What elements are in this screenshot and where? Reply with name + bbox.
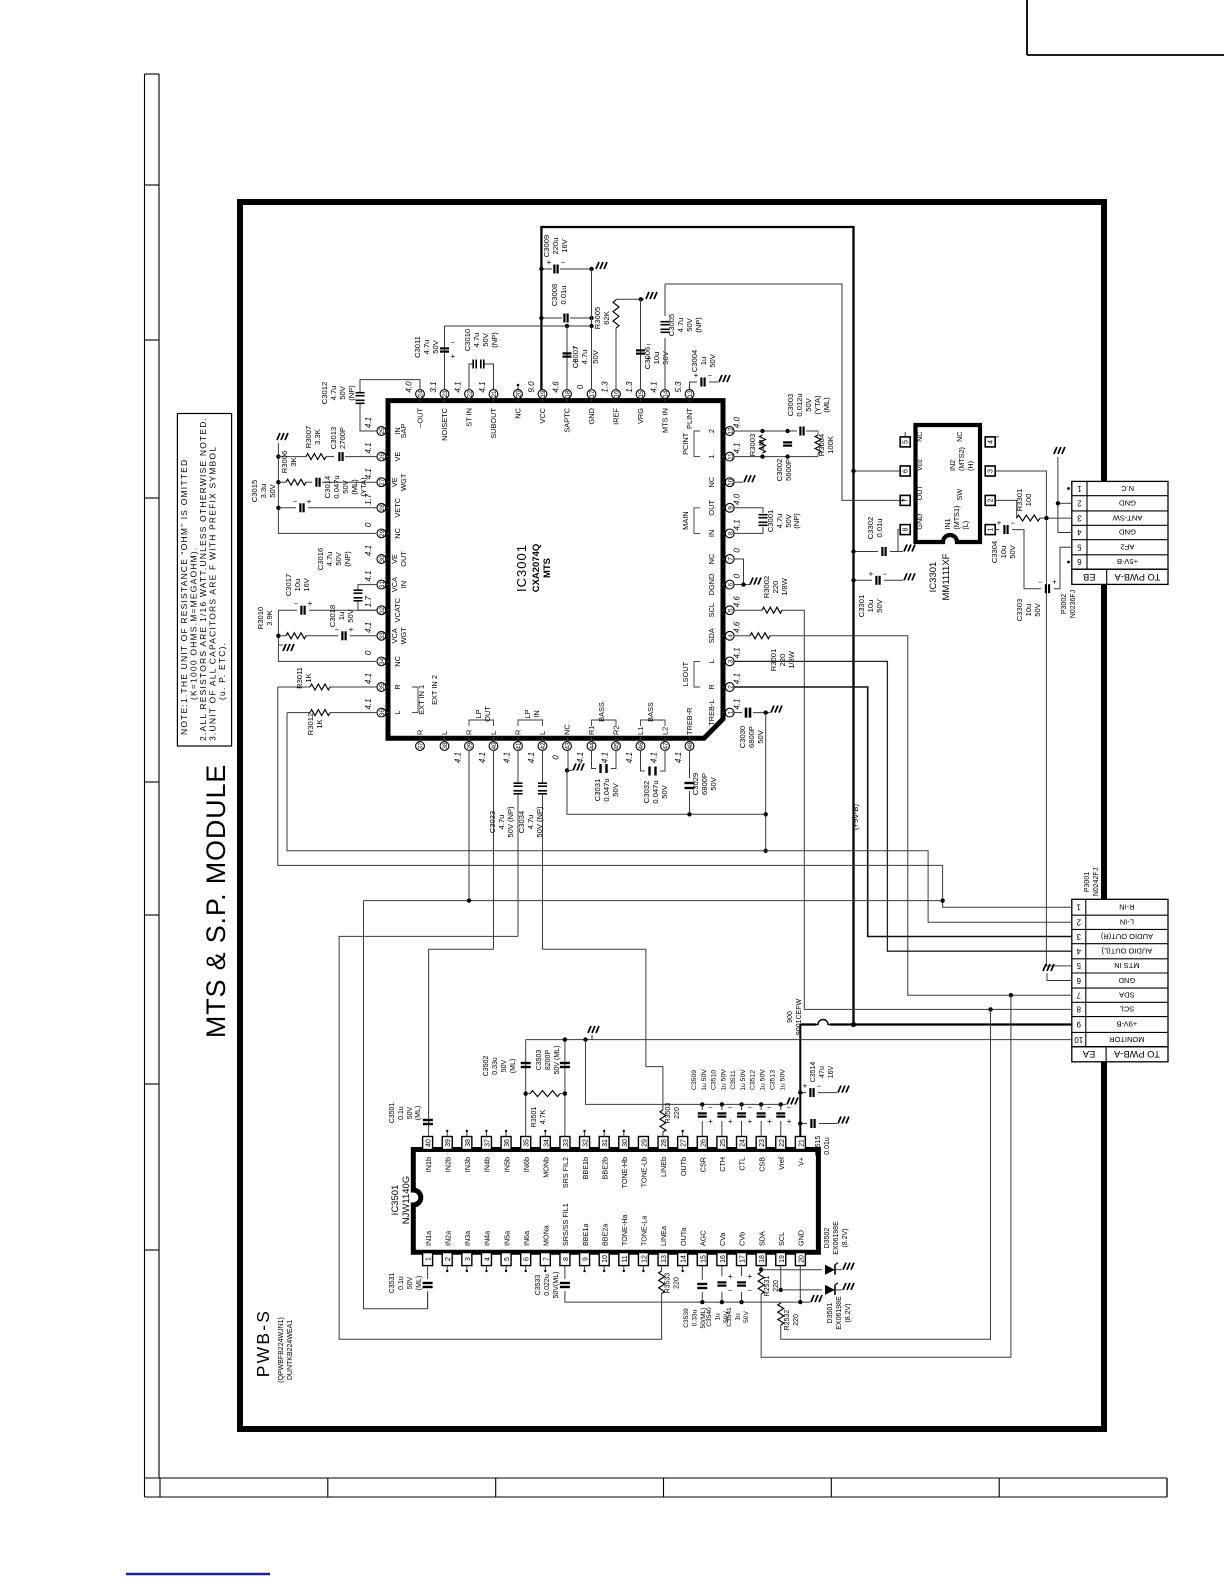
- svg-text:R: R: [393, 684, 402, 689]
- svg-text:4.1: 4.1: [454, 381, 463, 392]
- svg-text:4.7u: 4.7u: [497, 815, 506, 830]
- svg-text:VCA: VCA: [390, 628, 399, 643]
- svg-text:0.01u: 0.01u: [824, 1137, 831, 1155]
- svg-text:+5V-B: +5V-B: [1117, 557, 1138, 566]
- svg-text:C3032: C3032: [642, 781, 651, 803]
- resistor R3011 (pin35): [278, 686, 310, 688]
- svg-text:4.1: 4.1: [527, 752, 536, 763]
- svg-text:IN1: IN1: [943, 518, 952, 529]
- svg-text:+: +: [803, 1082, 808, 1091]
- wire R node horizontal: [364, 900, 943, 902]
- svg-text:4.1: 4.1: [364, 545, 373, 556]
- svg-text:TONE-La: TONE-La: [640, 1216, 649, 1246]
- svg-text:50V: 50V: [407, 1276, 414, 1289]
- svg-text:(MTS1): (MTS1): [952, 506, 961, 530]
- svg-text:NC: NC: [393, 655, 402, 666]
- svg-text:+: +: [307, 497, 312, 506]
- svg-text:8: 8: [903, 528, 910, 532]
- svg-text:10: 10: [1074, 1035, 1083, 1044]
- svg-text:C3030: C3030: [738, 726, 747, 748]
- svg-text:8: 8: [727, 531, 734, 535]
- svg-text:SDA: SDA: [707, 628, 716, 643]
- svg-text:35: 35: [524, 1139, 531, 1147]
- svg-text:39: 39: [445, 1139, 452, 1147]
- svg-text:+: +: [547, 258, 552, 267]
- svg-text:R2531: R2531: [764, 1276, 771, 1297]
- resistor R2531 (SDA): [760, 1266, 762, 1270]
- svg-text:19: 19: [779, 1255, 786, 1263]
- svg-text:1u: 1u: [735, 1313, 742, 1321]
- svg-text:+: +: [787, 1117, 792, 1126]
- svg-text:1u 50V: 1u 50V: [779, 1069, 786, 1091]
- svg-text:−: −: [1011, 519, 1016, 528]
- svg-text:C3304: C3304: [990, 541, 999, 563]
- svg-text:9.0: 9.0: [527, 381, 536, 393]
- svg-text:NC: NC: [563, 724, 572, 735]
- svg-text:2.ALL RESISTORS ARE 1/16 WATT.: 2.ALL RESISTORS ARE 1/16 WATT.UNLESS OTH…: [198, 417, 208, 741]
- svg-text:TONE-Ha: TONE-Ha: [620, 1215, 629, 1246]
- svg-text:220: 220: [793, 1314, 800, 1326]
- transistor-array IC3301 MM1111XF body: [916, 425, 981, 542]
- svg-text:11: 11: [622, 1255, 629, 1262]
- svg-text:C3539: C3539: [683, 1308, 690, 1328]
- IC3301 pin4 stub: [995, 436, 999, 438]
- wire V+ riser IC3501: [799, 1025, 801, 1145]
- svg-text:7: 7: [903, 498, 910, 502]
- capacitors C3509-C3513: [700, 1102, 704, 1106]
- svg-text:26: 26: [700, 1139, 707, 1147]
- svg-text:5.3: 5.3: [674, 381, 683, 393]
- ground R3005: [646, 292, 657, 299]
- svg-text:R3501: R3501: [531, 1107, 538, 1128]
- svg-text:C3515: C3515: [815, 1136, 822, 1157]
- svg-text:18: 18: [565, 390, 572, 398]
- svg-text:N0242FJ: N0242FJ: [1093, 868, 1100, 896]
- svg-text:32: 32: [583, 1139, 590, 1147]
- svg-text:R1: R1: [587, 726, 596, 735]
- svg-text:LINEb: LINEb: [659, 1157, 668, 1177]
- capacitor C3007: [566, 326, 568, 390]
- svg-text:33: 33: [379, 632, 386, 640]
- ground D3502: [843, 1263, 854, 1270]
- svg-text:34: 34: [379, 657, 386, 665]
- svg-text:39: 39: [467, 742, 474, 750]
- svg-text:−: −: [748, 1286, 753, 1295]
- IC3501 reference text: [390, 1185, 401, 1216]
- svg-text:21: 21: [491, 390, 498, 398]
- svg-text:OUTa: OUTa: [679, 1228, 688, 1246]
- capacitor C3303 (AF2): [1024, 588, 1041, 590]
- svg-text:C3511: C3511: [730, 1070, 737, 1090]
- svg-text:0: 0: [733, 573, 742, 578]
- svg-text:GND: GND: [587, 408, 596, 424]
- svg-text:CTL: CTL: [738, 1157, 747, 1171]
- svg-text:LINEa: LINEa: [659, 1226, 668, 1246]
- page frame: bottom ruler strip: [145, 1477, 1168, 1479]
- wire pin42 to LINEb route: [543, 949, 663, 1110]
- svg-text:MONa: MONa: [542, 1225, 551, 1246]
- svg-text:−: −: [728, 1286, 733, 1295]
- svg-text:22: 22: [779, 1139, 786, 1147]
- svg-text:SRS FIL2: SRS FIL2: [561, 1157, 570, 1188]
- capacitor C3541: [739, 1300, 743, 1304]
- svg-text:TONE-Lb: TONE-Lb: [640, 1157, 649, 1187]
- svg-text:NC: NC: [707, 553, 716, 564]
- svg-text:+: +: [451, 352, 456, 361]
- capacitor C3033 (pin41 riser): [517, 750, 519, 783]
- svg-text:16: 16: [614, 390, 621, 398]
- svg-text:C3015: C3015: [250, 480, 259, 502]
- svg-text:50V: 50V: [1008, 544, 1017, 558]
- svg-text:43: 43: [565, 742, 572, 750]
- svg-text:29: 29: [641, 1139, 648, 1147]
- resistor R3003 capacitor C3002 C3003 resistor R3004 (pins 12,11): [734, 430, 797, 432]
- page frame: left ruler strip: [144, 74, 146, 1497]
- svg-text:32: 32: [379, 606, 386, 614]
- IC3501 NC stubs: [446, 1131, 448, 1137]
- svg-text:1.3: 1.3: [625, 381, 634, 393]
- svg-text:4.0: 4.0: [733, 416, 742, 428]
- svg-text:NC: NC: [707, 476, 716, 487]
- svg-text:GND: GND: [915, 514, 924, 530]
- capacitor C3030 (pin1 TREB-L): [734, 712, 742, 714]
- svg-text:(u. P. ETC).: (u. P. ETC).: [217, 642, 227, 700]
- svg-text:+: +: [728, 1117, 733, 1126]
- capacitor C3503: [564, 1040, 566, 1137]
- svg-text:GND: GND: [1118, 976, 1135, 985]
- svg-text:42: 42: [540, 742, 547, 750]
- wire pin10 stub: [734, 481, 743, 483]
- wire MTS IN loop to IC3301 OUT: [665, 284, 905, 500]
- svg-text:47: 47: [663, 742, 670, 750]
- svg-text:2700P: 2700P: [338, 427, 347, 449]
- svg-text:1/8W: 1/8W: [780, 577, 789, 596]
- svg-text:50V: 50V: [875, 598, 884, 612]
- svg-text:+: +: [708, 1117, 713, 1126]
- capacitor C3539: [700, 1300, 704, 1304]
- svg-text:+: +: [308, 599, 313, 608]
- connector P3001 EA table: [1072, 899, 1168, 1046]
- svg-text:220: 220: [674, 1277, 681, 1289]
- svg-text:C3010: C3010: [463, 329, 472, 351]
- svg-text:TO PWB-A: TO PWB-A: [1113, 1049, 1160, 1059]
- svg-text:N0236FJ: N0236FJ: [1070, 590, 1077, 618]
- svg-text:0.047u: 0.047u: [602, 778, 611, 801]
- IC3301 reference text: [928, 562, 939, 593]
- svg-text:4.7u: 4.7u: [580, 350, 589, 365]
- svg-text:16V: 16V: [828, 1065, 835, 1078]
- svg-text:R: R: [416, 730, 425, 735]
- capacitor C3011: [440, 348, 449, 351]
- svg-text:6: 6: [727, 582, 734, 586]
- capacitor C3301: [854, 579, 873, 581]
- svg-text:19: 19: [540, 390, 547, 398]
- svg-text:100K: 100K: [826, 436, 835, 454]
- svg-text:27: 27: [681, 1139, 688, 1147]
- wire AUDIO OUT(L) from pin3: [734, 661, 1072, 951]
- svg-text:48: 48: [687, 742, 694, 750]
- svg-text:PLINT: PLINT: [685, 408, 694, 429]
- ground D3501: [843, 1283, 854, 1290]
- svg-text:50V: 50V: [660, 784, 669, 798]
- svg-text:4.1: 4.1: [364, 622, 373, 633]
- EB pin6 stub: [1067, 561, 1070, 564]
- svg-text:EX06198E: EX06198E: [836, 1296, 843, 1330]
- svg-text:50V: 50V: [334, 551, 343, 565]
- svg-text:R3011: R3011: [295, 667, 304, 689]
- svg-text:(ML): (ML): [510, 1059, 517, 1073]
- svg-text:OUT: OUT: [399, 551, 408, 567]
- capacitor C3034 (pin42 riser): [542, 750, 544, 783]
- svg-text:8: 8: [563, 1257, 570, 1261]
- connector P3002 EB table: [1072, 481, 1168, 569]
- svg-text:4.7u: 4.7u: [472, 333, 481, 348]
- svg-text:4.1: 4.1: [478, 752, 487, 763]
- svg-text:BBE1b: BBE1b: [581, 1157, 590, 1179]
- ground MONITOR bus: [591, 1035, 593, 1040]
- svg-text:7: 7: [727, 557, 734, 561]
- wire left bus B (pins 32-34): [278, 610, 376, 661]
- svg-text:+: +: [997, 519, 1002, 528]
- IC3001 pin 20 stub: [517, 385, 519, 390]
- svg-text:OUT: OUT: [483, 706, 492, 722]
- svg-text:ST IN: ST IN: [465, 408, 474, 427]
- svg-text:OUT: OUT: [915, 485, 924, 501]
- svg-text:15: 15: [700, 1255, 707, 1263]
- svg-text:NOTE:1.THE UNIT OF RESISTANCE: NOTE:1.THE UNIT OF RESISTANCE “OHM” IS O…: [179, 459, 189, 735]
- svg-text:IC3001: IC3001: [514, 544, 529, 592]
- svg-text:8: 8: [1076, 1005, 1081, 1014]
- svg-text:4.0: 4.0: [405, 381, 414, 393]
- svg-text:TREB-R: TREB-R: [685, 707, 694, 735]
- svg-text:C3540: C3540: [706, 1307, 713, 1327]
- svg-text:C3301: C3301: [857, 595, 866, 617]
- svg-text:1M: 1M: [757, 440, 766, 451]
- svg-text:CXA2074Q: CXA2074Q: [531, 544, 542, 593]
- svg-text:MONb: MONb: [542, 1157, 551, 1178]
- EB pin1 stub: [1067, 487, 1070, 490]
- svg-text:EXT IN 1: EXT IN 1: [417, 685, 426, 715]
- svg-text:4.1: 4.1: [478, 381, 487, 392]
- svg-text:0.33u: 0.33u: [492, 1057, 499, 1075]
- svg-text:AUDIO OUT(R): AUDIO OUT(R): [1100, 932, 1153, 941]
- svg-text:C3502: C3502: [483, 1056, 490, 1077]
- svg-text:LP: LP: [474, 709, 483, 718]
- svg-text:37: 37: [418, 742, 425, 750]
- svg-text:36: 36: [379, 709, 386, 717]
- svg-text:C3034: C3034: [517, 811, 526, 833]
- svg-text:OUTb: OUTb: [679, 1157, 688, 1176]
- svg-text:22: 22: [467, 390, 474, 398]
- svg-text:50V: 50V: [501, 1059, 508, 1072]
- svg-text:23: 23: [442, 390, 449, 398]
- svg-text:IN1a: IN1a: [424, 1231, 433, 1246]
- capacitor C3029 (pin48 TREB-R): [689, 750, 691, 778]
- svg-text:L: L: [707, 659, 716, 663]
- wire TREB vertical: [765, 713, 767, 851]
- wire pin39 riser: [468, 750, 470, 901]
- svg-text:7: 7: [1076, 990, 1081, 999]
- wire AUDIO OUT(R) from pin2: [734, 687, 1072, 937]
- svg-text:1/8W: 1/8W: [787, 650, 796, 669]
- svg-text:−: −: [293, 497, 298, 506]
- svg-text:SDA: SDA: [757, 1231, 766, 1246]
- svg-text:C3509: C3509: [691, 1070, 698, 1090]
- wire pin41 to LINEa route: [339, 936, 661, 1339]
- svg-text:0.33u: 0.33u: [692, 1309, 699, 1326]
- svg-text:50V: 50V: [756, 729, 765, 743]
- svg-text:+9V-B: +9V-B: [1117, 1020, 1138, 1029]
- svg-text:0.047u: 0.047u: [651, 780, 660, 803]
- svg-text:TO PWB-A: TO PWB-A: [1114, 572, 1161, 582]
- capacitor C3540: [720, 1300, 724, 1304]
- svg-text:4.1: 4.1: [364, 571, 373, 582]
- IC3301 pin5 stub: [904, 432, 906, 437]
- svg-text:3: 3: [727, 659, 734, 663]
- wire pin23 C3011 riser: [444, 326, 446, 390]
- svg-text:−: −: [451, 338, 456, 347]
- ground C3301: [904, 573, 915, 580]
- svg-text:1: 1: [707, 455, 716, 459]
- svg-text:NJW1140G: NJW1140G: [401, 1176, 412, 1224]
- svg-text:CVa: CVa: [718, 1233, 727, 1246]
- svg-text:220: 220: [674, 1107, 681, 1119]
- svg-text:R3006: R3006: [280, 451, 289, 473]
- svg-text:EB: EB: [1083, 572, 1095, 582]
- svg-text:IN: IN: [532, 710, 541, 717]
- svg-text:4.1: 4.1: [454, 752, 463, 763]
- svg-text:900: 900: [787, 1011, 794, 1023]
- capacitor C3032 bridge pins 46-47: [641, 750, 646, 771]
- svg-text:IN4b: IN4b: [483, 1157, 492, 1172]
- svg-text:EXT IN 2: EXT IN 2: [430, 675, 439, 705]
- wire pin20 GND: [799, 1266, 801, 1303]
- svg-text:C3514: C3514: [810, 1062, 817, 1083]
- svg-text:20: 20: [516, 390, 523, 398]
- svg-text:(8.2V): (8.2V): [842, 1228, 849, 1247]
- svg-text:5: 5: [1076, 961, 1081, 970]
- svg-text:6800P: 6800P: [747, 726, 756, 748]
- svg-text:4: 4: [727, 634, 734, 638]
- capacitor C3010 bridge pins 22-21: [469, 364, 473, 390]
- svg-text:6800P: 6800P: [700, 773, 709, 795]
- svg-text:1u: 1u: [715, 1313, 722, 1321]
- svg-text:(ML): (ML): [822, 397, 831, 413]
- svg-text:CSB: CSB: [757, 1157, 766, 1172]
- svg-text:17: 17: [740, 1255, 747, 1263]
- wire SW pin2 + resistor R3301: [995, 500, 1017, 518]
- svg-text:4.6: 4.6: [733, 596, 742, 608]
- svg-text:1: 1: [1077, 484, 1082, 493]
- svg-text:DGND: DGND: [707, 574, 716, 596]
- svg-text:15: 15: [638, 390, 645, 398]
- svg-text:−: −: [767, 1103, 772, 1112]
- board name PWB-S: [253, 1309, 273, 1377]
- svg-text:2: 2: [707, 429, 716, 433]
- capacitor C3533: [564, 1266, 566, 1279]
- IC3001 inner bracket labels: [399, 424, 408, 439]
- capacitor C3015 (pin28): [278, 507, 296, 509]
- svg-text:C3013: C3013: [329, 427, 338, 449]
- svg-text:IN1b: IN1b: [424, 1157, 433, 1172]
- resistor R3012 (pin36): [287, 712, 310, 714]
- svg-text:29: 29: [379, 529, 386, 537]
- svg-text:4: 4: [484, 1257, 491, 1261]
- svg-text:IN2b: IN2b: [443, 1157, 452, 1172]
- resistor R3010 + capacitor C3018 (pin33): [278, 635, 286, 637]
- svg-text:SCL: SCL: [777, 1232, 786, 1246]
- svg-text:4.7u: 4.7u: [422, 340, 431, 355]
- svg-text:C3006: C3006: [643, 347, 652, 369]
- svg-text:62K: 62K: [602, 311, 611, 325]
- svg-text:6: 6: [1076, 976, 1081, 985]
- svg-text:28: 28: [661, 1139, 668, 1147]
- resistor R3533 (LINEa): [661, 1266, 663, 1271]
- svg-text:31: 31: [602, 1139, 609, 1147]
- svg-text:3K: 3K: [289, 457, 298, 466]
- svg-text:0.047u: 0.047u: [332, 475, 341, 498]
- op-amp U IC3501 NJW1140G body: [413, 1150, 818, 1253]
- svg-text:50V: 50V: [268, 483, 277, 497]
- svg-text:N.C: N.C: [1120, 484, 1134, 493]
- wire Vcc to IC3301 pin6: [854, 470, 901, 472]
- svg-text:10u: 10u: [293, 579, 302, 592]
- svg-text:0.01u: 0.01u: [875, 518, 884, 537]
- svg-text:R: R: [707, 684, 716, 689]
- svg-text:R2532: R2532: [784, 1310, 791, 1331]
- svg-text:BASS: BASS: [597, 702, 606, 722]
- svg-text:4: 4: [1076, 946, 1081, 955]
- svg-text:IN3b: IN3b: [463, 1157, 472, 1172]
- ground EA pin6: [1043, 964, 1054, 971]
- svg-text:26: 26: [379, 453, 386, 461]
- svg-text:50V: 50V: [338, 385, 347, 399]
- svg-text:VCC: VCC: [538, 407, 547, 423]
- svg-text:P3001: P3001: [1084, 872, 1091, 892]
- svg-text:LP: LP: [523, 709, 532, 718]
- capacitor C3016 bridge pins 30-31: [358, 585, 377, 590]
- ground DGND: [750, 578, 761, 585]
- svg-text:C3005: C3005: [667, 314, 676, 336]
- IC3301 right pins: [985, 437, 995, 447]
- resistor R3503: [660, 1110, 666, 1132]
- svg-text:40: 40: [426, 1139, 433, 1147]
- svg-text:L: L: [489, 731, 498, 735]
- svg-text:R3001: R3001: [769, 649, 778, 671]
- svg-text:VRG: VRG: [636, 408, 645, 424]
- svg-text:50V: 50V: [346, 608, 355, 622]
- svg-text:(YTA): (YTA): [359, 477, 368, 497]
- svg-text:R3004: R3004: [817, 434, 826, 456]
- svg-text:NOISETC: NOISETC: [440, 407, 449, 441]
- ground C3514: [838, 1086, 849, 1093]
- svg-text:+: +: [349, 625, 354, 634]
- svg-text:50V (ML): 50V (ML): [554, 1046, 561, 1075]
- svg-text:220: 220: [778, 654, 787, 667]
- svg-text:4.1: 4.1: [364, 699, 373, 710]
- svg-text:6: 6: [903, 469, 910, 473]
- svg-text:4: 4: [988, 440, 995, 444]
- svg-text:2: 2: [1076, 918, 1081, 927]
- svg-text:NC: NC: [955, 432, 964, 442]
- svg-text:(H): (H): [966, 461, 975, 471]
- svg-text:IN2a: IN2a: [443, 1231, 452, 1246]
- svg-text:BBE2b: BBE2b: [600, 1157, 609, 1179]
- svg-text:(L): (L): [961, 521, 970, 530]
- IC3001 bottom pins 37-48: [419, 737, 421, 741]
- svg-text:13: 13: [687, 390, 694, 398]
- svg-text:10u: 10u: [652, 352, 661, 365]
